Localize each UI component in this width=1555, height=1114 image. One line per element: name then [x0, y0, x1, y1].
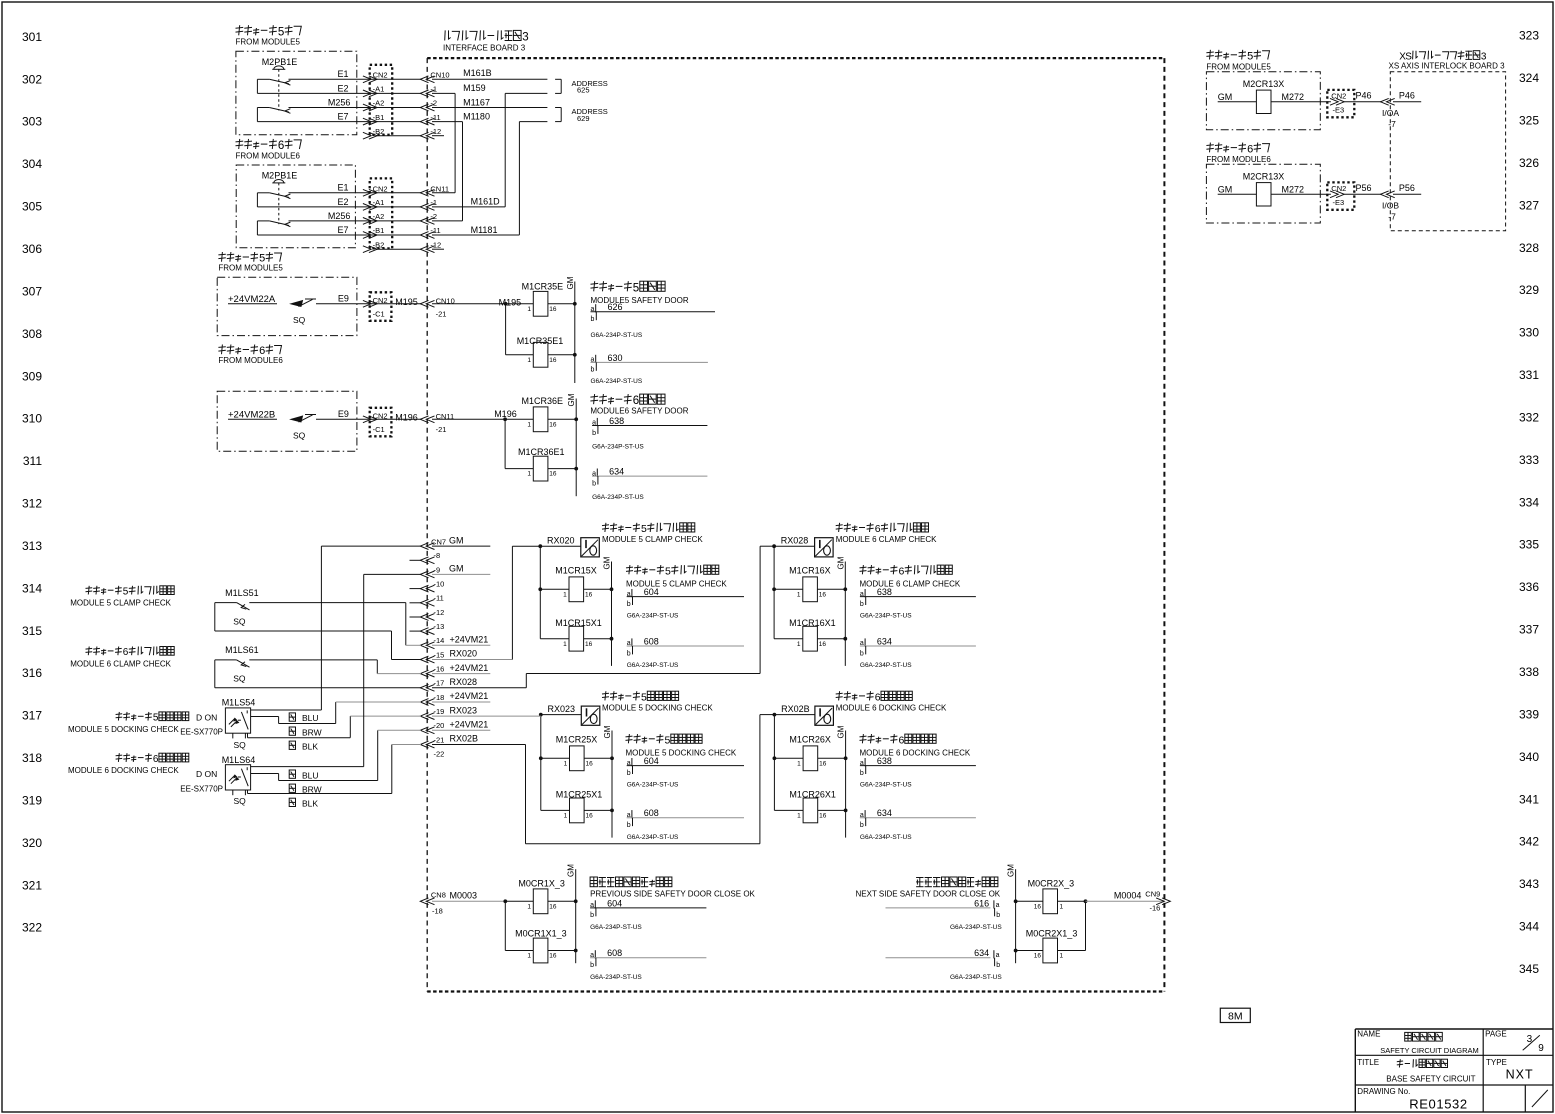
relay M1CR16X	[772, 566, 847, 602]
svg-text:D ON: D ON	[196, 769, 217, 779]
svg-text:M1CR36E1: M1CR36E1	[518, 447, 565, 457]
svg-text:M0003: M0003	[450, 891, 478, 901]
svg-text:-18: -18	[432, 906, 443, 915]
svg-text:G6A-234P-ST-US: G6A-234P-ST-US	[592, 494, 644, 501]
wire sensor1 BRW to +24VM21 pin19	[251, 702, 421, 724]
svg-text:M195: M195	[499, 297, 522, 307]
GM bus (door6)	[567, 393, 576, 496]
svg-text:322: 322	[22, 921, 42, 935]
svg-text:16: 16	[586, 813, 594, 820]
svg-text:MODULE 6 CLAMP CHECK: MODULE 6 CLAMP CHECK	[836, 535, 937, 544]
svg-text:1: 1	[527, 953, 531, 960]
svg-text:330: 330	[1519, 326, 1539, 340]
svg-text:608: 608	[644, 636, 659, 646]
row numbers left 301-322	[22, 30, 42, 935]
GM bus (door5)	[566, 276, 575, 383]
svg-text:E9: E9	[338, 409, 349, 419]
svg-text:E7: E7	[338, 225, 349, 235]
svg-text:16: 16	[585, 591, 593, 598]
wire E2	[257, 79, 376, 93]
svg-text:5: 5	[665, 734, 671, 746]
svg-text:b: b	[592, 430, 596, 437]
svg-text:-1: -1	[430, 85, 437, 94]
svg-text:-8: -8	[434, 551, 441, 560]
svg-text:P56: P56	[1399, 183, 1415, 193]
relay M1CR25X1	[541, 790, 614, 823]
svg-text:P46: P46	[1356, 91, 1372, 101]
svg-text:630: 630	[608, 353, 623, 363]
wire M1180 daisy to CN11	[432, 111, 490, 220]
svg-text:616: 616	[974, 898, 989, 908]
wire RX020 drop	[539, 546, 541, 639]
svg-text:638: 638	[877, 756, 892, 766]
svg-text:b: b	[860, 650, 864, 657]
svg-text:6: 6	[875, 691, 881, 703]
svg-text:629: 629	[577, 114, 590, 123]
svg-text:303: 303	[22, 115, 42, 129]
relay M0CR1X1_3	[505, 901, 577, 963]
svg-text:1: 1	[563, 591, 567, 598]
svg-text:325: 325	[1519, 114, 1539, 128]
wire GM pin10 right stub	[432, 573, 490, 575]
svg-text:M161B: M161B	[463, 68, 492, 78]
svg-text:333: 333	[1519, 453, 1539, 467]
address 629 bracket	[555, 107, 608, 123]
svg-text:E9: E9	[338, 294, 349, 304]
label MODULE 6 DOCKING CHECK	[860, 734, 971, 757]
svg-text:-C1: -C1	[373, 425, 385, 434]
svg-text:604: 604	[607, 898, 622, 908]
relay M0CR1X_3	[518, 879, 577, 914]
svg-text:1: 1	[527, 903, 531, 910]
svg-text:P46: P46	[1399, 91, 1415, 101]
pushbutton M2PB1E (module6)	[257, 170, 297, 226]
wire RX02B net	[432, 715, 774, 844]
CN7 signal labels	[449, 535, 488, 743]
wire M1LS51 return RX020 pin16	[215, 603, 421, 660]
wire sensor2 BLU to GM pin10	[251, 574, 421, 766]
interface board 3 outline	[427, 58, 1164, 991]
svg-text:340: 340	[1519, 750, 1539, 764]
svg-text:5: 5	[665, 565, 671, 577]
svg-text:MODULE5 SAFETY DOOR: MODULE5 SAFETY DOOR	[591, 296, 689, 305]
svg-text:-14: -14	[434, 636, 445, 645]
svg-text:M2CR13X: M2CR13X	[1243, 79, 1285, 89]
svg-text:BRW: BRW	[302, 784, 322, 794]
svg-text:FROM MODULE5: FROM MODULE5	[1206, 62, 1271, 71]
svg-text:6: 6	[899, 565, 905, 577]
svg-text:323: 323	[1519, 29, 1539, 43]
svg-text:MODULE 5 DOCKING CHECK: MODULE 5 DOCKING CHECK	[602, 703, 713, 712]
svg-text:344: 344	[1519, 920, 1539, 934]
svg-text:1: 1	[527, 306, 531, 313]
svg-text:-E3: -E3	[1333, 198, 1345, 207]
module6 relay source box (right)	[1206, 164, 1320, 223]
svg-text:312: 312	[22, 497, 42, 511]
output wire 616 (bottom right)	[886, 898, 1003, 931]
svg-text:343: 343	[1519, 877, 1539, 891]
svg-text:G6A-234P-ST-US: G6A-234P-ST-US	[860, 782, 912, 789]
label from module5 (row307)	[218, 252, 283, 272]
svg-text:SQ: SQ	[293, 315, 306, 325]
svg-text:324: 324	[1519, 71, 1539, 85]
svg-text:SQ: SQ	[234, 740, 247, 750]
relay contact M2CR13X (module5)	[1218, 79, 1331, 114]
svg-text:608: 608	[644, 808, 659, 818]
svg-text:309: 309	[22, 369, 42, 383]
svg-text:16: 16	[549, 421, 557, 428]
svg-text:318: 318	[22, 751, 42, 765]
svg-text:b: b	[591, 316, 595, 323]
label module6 docking check (left)	[68, 753, 189, 775]
svg-text:MODULE 5 CLAMP CHECK: MODULE 5 CLAMP CHECK	[602, 535, 703, 544]
photo sensor M1LS64	[180, 755, 255, 806]
wire address 629 b-side from M1181	[519, 122, 547, 235]
svg-text:3: 3	[522, 32, 528, 44]
wire M256	[289, 97, 377, 107]
svg-text:-E3: -E3	[1333, 106, 1345, 115]
svg-text:317: 317	[22, 709, 42, 723]
svg-text:G6A-234P-ST-US: G6A-234P-ST-US	[591, 378, 643, 385]
svg-text:634: 634	[877, 808, 892, 818]
svg-text:b: b	[860, 770, 864, 777]
svg-text:336: 336	[1519, 580, 1539, 594]
svg-text:342: 342	[1519, 835, 1539, 849]
wire M1LS61 to +24VM21 pin17	[249, 660, 421, 674]
connector CN2 (module6)	[363, 178, 392, 252]
svg-text:16: 16	[1034, 903, 1042, 910]
svg-text:1: 1	[564, 760, 568, 767]
label モジュール6着座確認	[836, 691, 947, 712]
svg-text:16: 16	[549, 357, 557, 364]
svg-text:FROM MODULE6: FROM MODULE6	[218, 356, 283, 365]
svg-text:GM: GM	[449, 535, 464, 545]
svg-text:CN7: CN7	[431, 537, 446, 546]
output wire 630	[591, 353, 708, 385]
svg-text:+24VM21: +24VM21	[450, 663, 489, 673]
svg-text:-1: -1	[430, 198, 437, 207]
svg-text:-16: -16	[434, 665, 445, 674]
wire address 625 b-side from M161D	[505, 93, 547, 206]
label モジュール5クランプ確認	[602, 523, 703, 544]
svg-text:-20: -20	[434, 721, 445, 730]
svg-text:332: 332	[1519, 411, 1539, 425]
svg-text:16: 16	[1034, 953, 1042, 960]
svg-text:1: 1	[1060, 903, 1064, 910]
relay M1CR25X	[539, 735, 614, 771]
svg-text:SQ: SQ	[233, 674, 246, 684]
svg-text:1: 1	[527, 357, 531, 364]
svg-text:M0CR2X_3: M0CR2X_3	[1028, 879, 1075, 889]
svg-text:M0004: M0004	[1114, 891, 1142, 901]
svg-text:-22: -22	[434, 750, 445, 759]
wire E7 (module6)	[257, 221, 376, 235]
output wire 634	[860, 636, 976, 669]
source box +24VM22A	[217, 277, 357, 335]
svg-text:GM: GM	[566, 276, 575, 289]
svg-text:RX02B: RX02B	[450, 734, 479, 744]
wire M161D	[432, 197, 505, 207]
svg-text:16: 16	[586, 760, 594, 767]
svg-text:EE-SX770P: EE-SX770P	[180, 785, 223, 794]
svg-text:M1LS51: M1LS51	[225, 588, 259, 598]
svg-text:326: 326	[1519, 156, 1539, 170]
svg-text:G6A-234P-ST-US: G6A-234P-ST-US	[627, 782, 679, 789]
svg-text:-9: -9	[434, 565, 441, 574]
wire RX023 drop	[540, 715, 542, 811]
wire E7	[257, 108, 376, 122]
sensor1 color labels	[289, 713, 321, 752]
svg-text:MODULE 6 DOCKING CHECK: MODULE 6 DOCKING CHECK	[68, 766, 179, 775]
wire E1	[289, 69, 377, 79]
svg-text:M0CR2X1_3: M0CR2X1_3	[1026, 929, 1078, 939]
svg-text:G6A-234P-ST-US: G6A-234P-ST-US	[860, 834, 912, 841]
svg-text:M272: M272	[1282, 184, 1305, 194]
svg-text:-11: -11	[430, 113, 440, 122]
svg-text:M2PB1E: M2PB1E	[262, 57, 298, 67]
svg-text:-10: -10	[434, 579, 445, 588]
svg-text:G6A-234P-ST-US: G6A-234P-ST-US	[590, 974, 642, 981]
svg-text:MODULE 5 CLAMP CHECK: MODULE 5 CLAMP CHECK	[626, 579, 727, 588]
svg-text:306: 306	[22, 242, 42, 256]
svg-text:GM: GM	[837, 725, 846, 738]
title block title cell	[1357, 1058, 1475, 1083]
relay contact M2CR13X (module6)	[1218, 172, 1331, 207]
svg-text:1: 1	[797, 813, 801, 820]
svg-text:328: 328	[1519, 241, 1539, 255]
svg-text:GM: GM	[603, 725, 612, 738]
svg-text:BRW: BRW	[302, 727, 322, 737]
output wire 638	[860, 756, 976, 789]
relay M1CR35E	[522, 282, 577, 316]
connector CN11-21	[376, 412, 454, 434]
svg-text:E2: E2	[338, 83, 349, 93]
limit switch M1LS51	[215, 588, 259, 626]
svg-text:CN9: CN9	[1145, 890, 1160, 899]
svg-text:PREVIOUS SIDE SAFETY DOOR CLOS: PREVIOUS SIDE SAFETY DOOR CLOSE OK	[590, 890, 755, 899]
svg-text:-17: -17	[434, 679, 445, 688]
label from module6 (top)	[236, 139, 302, 161]
svg-text:G6A-234P-ST-US: G6A-234P-ST-US	[950, 924, 1002, 931]
wire RX028 net	[432, 546, 774, 688]
wire M0004	[1086, 891, 1164, 902]
svg-text:16: 16	[549, 306, 557, 313]
svg-text:FROM MODULE6: FROM MODULE6	[1206, 155, 1271, 164]
svg-text:RX020: RX020	[547, 536, 575, 546]
svg-text:338: 338	[1519, 665, 1539, 679]
svg-text:XS AXIS INTERLOCK BOARD 3: XS AXIS INTERLOCK BOARD 3	[1389, 61, 1506, 70]
wire P56	[1344, 193, 1381, 195]
svg-text:FROM MODULE5: FROM MODULE5	[236, 38, 301, 47]
svg-text:RX02B: RX02B	[781, 704, 810, 714]
svg-text:638: 638	[609, 416, 624, 426]
indicator RX020	[538, 536, 599, 557]
svg-text:334: 334	[1519, 495, 1539, 509]
svg-text:-12: -12	[430, 127, 441, 136]
svg-text:BLU: BLU	[302, 770, 319, 780]
wire RX023 net	[432, 715, 541, 717]
svg-text:16: 16	[549, 903, 557, 910]
XS axis interlock board 3 outline	[1390, 72, 1505, 231]
svg-text:G6A-234P-ST-US: G6A-234P-ST-US	[627, 613, 679, 620]
svg-text:a: a	[996, 902, 1000, 909]
svg-text:638: 638	[877, 587, 892, 597]
output wire 604	[627, 587, 744, 620]
svg-text:-18: -18	[434, 693, 445, 702]
svg-text:GM: GM	[449, 564, 464, 574]
label module6 clamp check (left)	[70, 647, 174, 669]
relay M1CR36E1	[505, 419, 578, 481]
svg-text:1: 1	[797, 641, 801, 648]
svg-text:311: 311	[23, 454, 42, 468]
svg-text:E2: E2	[338, 197, 349, 207]
wire GM pin8 right stub	[432, 545, 490, 547]
label from module5 (top)	[236, 25, 302, 47]
svg-text:b: b	[590, 962, 594, 969]
svg-text:M1CR25X: M1CR25X	[556, 735, 598, 745]
svg-text:5: 5	[278, 26, 284, 38]
svg-text:308: 308	[22, 327, 42, 341]
svg-text:b: b	[627, 650, 631, 657]
svg-text:GM: GM	[567, 393, 576, 406]
svg-text:E1: E1	[338, 183, 349, 193]
photo sensor M1LS54	[180, 698, 255, 750]
svg-text:8M: 8M	[1228, 1010, 1243, 1022]
wire M196	[432, 409, 533, 421]
GM bus (bottom left)	[567, 864, 576, 963]
indicator RX02B	[773, 704, 834, 725]
wire M256 (module6)	[289, 211, 377, 221]
connector CN2-E3 (module5 right)	[1327, 90, 1371, 117]
svg-text:MODULE 6 DOCKING CHECK: MODULE 6 DOCKING CHECK	[836, 703, 947, 712]
svg-text:-13: -13	[434, 622, 445, 631]
label MODULE 5 CLAMP CHECK	[626, 565, 727, 588]
svg-text:M2CR13X: M2CR13X	[1243, 172, 1285, 182]
module5 relay source box (right)	[1206, 72, 1320, 130]
relay M1CR15X1	[540, 618, 613, 651]
svg-text:a: a	[996, 952, 1000, 959]
label from module6 (row309)	[218, 345, 283, 366]
title block page cell	[1485, 1030, 1544, 1055]
svg-text:6: 6	[153, 754, 159, 765]
svg-text:G6A-234P-ST-US: G6A-234P-ST-US	[592, 444, 644, 451]
label モジュール6クランプ確認	[836, 523, 937, 544]
connector CN10-21	[376, 296, 455, 318]
svg-text:GM: GM	[1218, 92, 1233, 102]
svg-text:M1CR16X: M1CR16X	[789, 566, 831, 576]
svg-text:5: 5	[153, 713, 159, 724]
8M reference box	[1220, 1008, 1250, 1022]
svg-text:M196: M196	[395, 413, 418, 423]
svg-text:E1: E1	[338, 69, 349, 79]
svg-text:b: b	[996, 912, 1000, 919]
source box +24VM22B	[217, 391, 357, 451]
label module5 docking check (left)	[68, 712, 189, 734]
svg-text:1: 1	[797, 591, 801, 598]
svg-text:CN10: CN10	[430, 71, 449, 80]
relay M0CR2X1_3	[1014, 901, 1086, 963]
svg-text:6: 6	[1247, 143, 1253, 155]
GM bus at M1CR26X	[837, 725, 846, 837]
svg-text:SAFETY CIRCUIT DIAGRAM: SAFETY CIRCUIT DIAGRAM	[1380, 1046, 1479, 1055]
wire M1167 to address 629	[432, 97, 547, 107]
svg-text:6: 6	[278, 140, 284, 152]
stub CN10 pin12	[432, 135, 444, 137]
svg-text:+24VM21: +24VM21	[450, 635, 489, 645]
svg-text:321: 321	[22, 878, 42, 892]
svg-text:1: 1	[797, 760, 801, 767]
svg-text:319: 319	[22, 794, 42, 808]
svg-text:634: 634	[609, 467, 624, 477]
wire RX020 net	[432, 546, 540, 659]
output wire 634 (door6)	[592, 467, 707, 502]
svg-text:M161D: M161D	[471, 197, 501, 207]
indicator RX023	[539, 704, 600, 725]
svg-text:16: 16	[549, 953, 557, 960]
svg-text:b: b	[996, 962, 1000, 969]
svg-text:626: 626	[608, 302, 623, 312]
svg-text:CN8: CN8	[431, 891, 446, 900]
svg-text:M1167: M1167	[463, 97, 490, 107]
svg-text:G6A-234P-ST-US: G6A-234P-ST-US	[950, 974, 1002, 981]
wire E2 (module6)	[257, 193, 376, 207]
svg-text:MODULE6 SAFETY DOOR: MODULE6 SAFETY DOOR	[590, 406, 688, 415]
svg-text:327: 327	[1519, 198, 1539, 212]
connector CN2-C1 (module6)	[363, 408, 418, 437]
wire sensor1 BLK to RX023 pin20	[248, 716, 422, 738]
svg-text:301: 301	[22, 30, 42, 44]
output wire 638 (door6)	[592, 416, 707, 451]
connector CN10 pins 1-12	[376, 71, 450, 139]
address 625 bracket	[555, 79, 608, 95]
svg-text:345: 345	[1519, 962, 1539, 976]
svg-text:-21: -21	[436, 310, 447, 319]
label モジュール5着座確認	[602, 691, 713, 712]
output wire 604 (bottom left)	[590, 898, 706, 931]
svg-text:M1180: M1180	[463, 111, 490, 121]
svg-text:-11: -11	[430, 226, 440, 235]
output wire 604	[627, 756, 744, 789]
svg-text:-12: -12	[430, 240, 441, 249]
label MODULE 6 CLAMP CHECK	[860, 565, 961, 588]
svg-text:5: 5	[641, 691, 647, 703]
title block type cell	[1486, 1058, 1534, 1082]
svg-text:M0CR1X_3: M0CR1X_3	[518, 879, 565, 889]
svg-text:P56: P56	[1356, 183, 1372, 193]
svg-text:RX023: RX023	[548, 704, 576, 714]
svg-text:5: 5	[633, 282, 639, 294]
svg-text:BLK: BLK	[302, 799, 318, 809]
wire sensor2 BLK to RX02B pin22	[248, 745, 422, 794]
limit switch M1LS61	[215, 645, 259, 683]
svg-text:SQ: SQ	[234, 796, 247, 806]
svg-text:16: 16	[819, 760, 827, 767]
wire CN11 pin1 from M159	[432, 192, 455, 194]
svg-text:604: 604	[644, 587, 659, 597]
svg-text:b: b	[627, 822, 631, 829]
title block drawing number	[1357, 1087, 1467, 1112]
svg-text:6: 6	[123, 647, 129, 658]
svg-text:625: 625	[577, 86, 590, 95]
connector CN2 (module5) pins A1-B2	[363, 65, 392, 139]
svg-text:M0CR1X1_3: M0CR1X1_3	[515, 929, 567, 939]
svg-text:6: 6	[633, 395, 639, 407]
svg-text:RX023: RX023	[450, 705, 478, 715]
svg-text:-7: -7	[1388, 119, 1396, 129]
relay M0CR2X_3	[1014, 879, 1088, 914]
svg-text:RE01532: RE01532	[1409, 1096, 1467, 1111]
svg-text:SQ: SQ	[233, 616, 246, 626]
